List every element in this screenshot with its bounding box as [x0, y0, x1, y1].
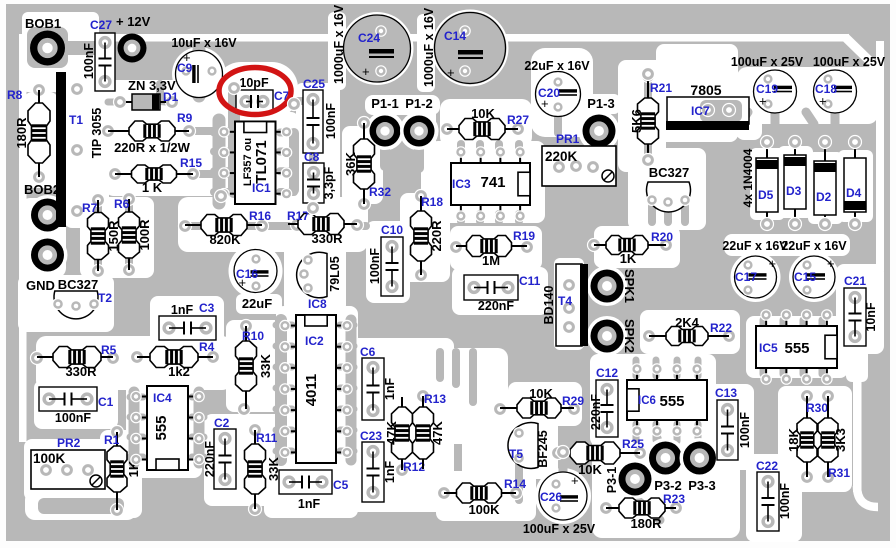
svg-text:R20: R20: [651, 230, 673, 244]
op-amp IC1 LF357/TL071: [219, 122, 292, 205]
svg-text:BD140: BD140: [542, 286, 556, 325]
svg-text:IC4: IC4: [153, 391, 172, 405]
svg-text:C22: C22: [756, 459, 778, 473]
svg-text:100nF: 100nF: [55, 411, 91, 425]
resistor R1 1K: [104, 426, 141, 517]
connector +12V: [116, 14, 151, 63]
svg-text:C18: C18: [815, 82, 837, 96]
wire: [280, 167, 294, 175]
svg-text:R22: R22: [710, 321, 732, 335]
regulator IC7 7805: [666, 82, 749, 130]
connector SPK2: [587, 316, 637, 356]
capacitor C7 10pF: [236, 76, 290, 113]
wire: [695, 424, 702, 440]
svg-text:C8: C8: [304, 150, 320, 164]
wire: [192, 454, 204, 461]
connector P3-3: [680, 438, 720, 493]
svg-text:100nF: 100nF: [368, 248, 382, 284]
svg-text:C27: C27: [90, 18, 112, 32]
capacitor C5 1nF: [279, 470, 349, 511]
timer IC6 555: [627, 364, 707, 436]
wire: [414, 148, 424, 168]
svg-text:P1-2: P1-2: [405, 96, 432, 111]
wire: [340, 385, 354, 392]
wire: [130, 414, 143, 421]
svg-text:R15: R15: [180, 156, 202, 170]
highlight ellipse around C7: [219, 68, 291, 115]
svg-text:C11: C11: [519, 274, 541, 288]
svg-text:100nF: 100nF: [778, 483, 792, 519]
capacitor C17 22uF: [722, 239, 788, 298]
wire: [681, 206, 689, 222]
svg-text:100K: 100K: [468, 502, 500, 517]
wire: [214, 148, 230, 156]
capacitor C9 10uF: [171, 36, 237, 98]
capacitor C15 22uF: [781, 239, 847, 298]
wire: [213, 120, 226, 203]
wire: [214, 129, 230, 137]
svg-text:R10: R10: [242, 329, 264, 343]
wire: [644, 146, 652, 162]
svg-text:1 K: 1 K: [142, 180, 163, 195]
resistor R5 330R: [31, 343, 120, 379]
svg-text:R4: R4: [199, 340, 215, 354]
svg-text:R9: R9: [177, 111, 193, 125]
svg-text:820K: 820K: [209, 232, 241, 247]
wire: [25, 490, 137, 520]
svg-text:IC2: IC2: [305, 334, 324, 348]
diode D4 1N4004: [844, 136, 866, 231]
wire: [469, 352, 477, 402]
wire: [340, 322, 354, 329]
wire: [276, 427, 292, 434]
svg-text:C24: C24: [358, 31, 380, 45]
wire: [193, 170, 232, 178]
svg-text:+: +: [571, 473, 579, 488]
wire: [648, 206, 656, 222]
wire: [125, 258, 133, 271]
svg-text:330R: 330R: [65, 364, 97, 379]
wire: [193, 50, 206, 96]
wire: [340, 448, 354, 455]
svg-text:C13: C13: [715, 386, 737, 400]
svg-text:R17: R17: [287, 209, 309, 223]
svg-text:D2: D2: [816, 190, 832, 204]
wire: [276, 406, 292, 413]
wire: [125, 200, 133, 212]
capacitor C14 1000uF: [422, 7, 506, 87]
svg-text:R8: R8: [7, 88, 23, 102]
wire: [340, 364, 354, 371]
svg-text:C6: C6: [360, 345, 376, 359]
wire: [380, 148, 390, 166]
wire: [495, 144, 503, 152]
wire: [228, 88, 240, 192]
wire: [806, 112, 814, 124]
svg-text:R25: R25: [622, 437, 644, 451]
svg-text:T4: T4: [558, 294, 572, 308]
svg-text:+: +: [447, 65, 455, 80]
svg-text:C26: C26: [540, 490, 562, 504]
svg-text:IC8: IC8: [308, 297, 327, 311]
wire: [780, 364, 787, 374]
svg-text:PR2: PR2: [57, 436, 81, 450]
connector GND: [26, 235, 68, 293]
connector P1-1: [366, 96, 404, 150]
wire: [819, 364, 826, 374]
svg-text:BC327: BC327: [58, 277, 98, 292]
svg-text:BOB2: BOB2: [24, 182, 60, 197]
trimmer PR2 100K: [31, 436, 105, 489]
wire: [346, 320, 357, 460]
transistor T4 BD140: [542, 264, 588, 346]
svg-text:10pF: 10pF: [239, 76, 269, 90]
capacitor C2 220nF: [203, 416, 236, 489]
svg-text:D5: D5: [758, 188, 774, 202]
svg-text:C20: C20: [538, 86, 560, 100]
resistor R15 1 K: [109, 156, 203, 195]
resistor R23 180R: [600, 492, 686, 531]
connector P1-2: [400, 96, 438, 150]
wire: [192, 414, 204, 421]
capacitor C22 100nF: [756, 459, 792, 531]
svg-text:R16: R16: [249, 209, 271, 223]
svg-text:100uF x 25V: 100uF x 25V: [813, 55, 886, 69]
transistor T5 BF245: [508, 423, 550, 469]
wire: [674, 360, 681, 376]
svg-text:BF245: BF245: [536, 430, 550, 468]
wire: [185, 222, 205, 230]
svg-text:R21: R21: [650, 81, 672, 95]
svg-text:+: +: [362, 64, 370, 79]
svg-text:220nF: 220nF: [203, 441, 217, 477]
svg-text:18K: 18K: [786, 427, 801, 451]
wire: [280, 188, 294, 196]
svg-text:P3-3: P3-3: [688, 478, 715, 493]
wire: [695, 360, 702, 376]
resistor R12 47K: [384, 397, 425, 477]
wire: [602, 306, 612, 318]
wire: [276, 448, 292, 455]
regulator IC8 79L05: [297, 252, 342, 311]
svg-text:SPK1: SPK1: [622, 269, 637, 303]
svg-text:IC6: IC6: [638, 395, 656, 407]
svg-text:100nF: 100nF: [738, 412, 752, 448]
wire: [340, 427, 354, 434]
svg-text:IC1: IC1: [252, 181, 271, 195]
capacitor C8 3,3pF: [303, 150, 336, 203]
svg-text:+: +: [769, 256, 777, 271]
svg-text:5K6: 5K6: [629, 109, 644, 133]
label 4x 1N4004: [741, 148, 755, 207]
svg-text:C10: C10: [381, 223, 403, 237]
svg-text:1K: 1K: [620, 251, 637, 266]
wire: [214, 188, 230, 196]
capacitor C1 100nF: [39, 387, 114, 425]
resistor R14 100K: [438, 477, 527, 517]
svg-text:330R: 330R: [311, 231, 343, 246]
svg-text:IC3: IC3: [452, 177, 471, 191]
wire: [67, 41, 98, 55]
svg-text:1nF: 1nF: [383, 378, 397, 401]
resistor R30 18K: [786, 390, 828, 484]
capacitor C12 220nF: [589, 366, 618, 437]
wire: [130, 434, 143, 441]
wire: [38, 498, 124, 514]
resistor R16 820K: [179, 209, 272, 247]
svg-text:1nF: 1nF: [298, 497, 321, 511]
svg-text:220R: 220R: [429, 220, 444, 252]
svg-text:47K: 47K: [430, 420, 445, 444]
svg-text:C12: C12: [596, 366, 618, 380]
svg-text:1nF: 1nF: [171, 303, 194, 317]
capacitor C13 100nF: [715, 386, 752, 460]
svg-text:100uF x 25V: 100uF x 25V: [731, 55, 804, 69]
wire: [275, 320, 287, 460]
svg-text:741: 741: [480, 174, 505, 191]
svg-text:T5: T5: [509, 447, 523, 461]
wire: [452, 352, 460, 384]
svg-text:C1: C1: [98, 395, 114, 409]
svg-text:R14: R14: [504, 477, 526, 491]
diode D5 1N4004: [756, 136, 778, 231]
wire: [515, 144, 523, 152]
svg-text:C3: C3: [199, 301, 215, 315]
resistor R20 1K: [588, 230, 674, 266]
svg-text:R18: R18: [421, 195, 443, 209]
svg-text:C17: C17: [735, 270, 757, 284]
wire: [559, 452, 568, 472]
svg-text:C19: C19: [756, 82, 778, 96]
wire: [94, 200, 102, 212]
wire: [653, 424, 660, 440]
resistor R19 1M: [450, 229, 536, 268]
wire: [289, 133, 299, 190]
svg-text:3K3: 3K3: [833, 428, 848, 452]
svg-text:+ 12V: + 12V: [116, 14, 151, 29]
wire: [656, 433, 660, 443]
svg-text:220nF: 220nF: [589, 394, 603, 430]
svg-text:R12: R12: [403, 460, 425, 474]
capacitor C26 100uF: [523, 472, 596, 536]
svg-text:4011: 4011: [303, 374, 320, 407]
svg-text:P1-1: P1-1: [371, 96, 398, 111]
svg-text:IC5: IC5: [759, 341, 778, 355]
svg-text:4x 1N4004: 4x 1N4004: [741, 148, 755, 207]
diode D3 1N4004: [784, 136, 806, 231]
wire: [633, 360, 640, 376]
svg-text:220R x 1/2W: 220R x 1/2W: [114, 140, 191, 155]
svg-text:TL071: TL071: [253, 140, 270, 183]
capacitor C10 100nF: [368, 223, 403, 296]
svg-text:10K: 10K: [578, 462, 602, 477]
svg-text:100K: 100K: [33, 451, 66, 466]
svg-text:R29: R29: [562, 394, 584, 408]
svg-text:SPK2: SPK2: [622, 319, 637, 353]
svg-text:79L05: 79L05: [328, 256, 342, 291]
svg-text:22uF: 22uF: [242, 296, 272, 311]
wire: [108, 99, 120, 106]
svg-text:R13: R13: [424, 392, 446, 406]
wire: [94, 259, 102, 272]
diode D2 1N4004: [814, 136, 836, 231]
capacitor C25 100nF: [303, 77, 338, 153]
capacitor C16 22uF: [234, 250, 277, 312]
svg-text:C9: C9: [177, 61, 193, 75]
svg-text:10nF: 10nF: [864, 302, 878, 332]
wire: [298, 97, 313, 105]
svg-text:180R: 180R: [14, 117, 29, 149]
wire: [340, 406, 354, 413]
svg-text:+: +: [827, 256, 835, 271]
op-amp IC3 741: [451, 147, 530, 221]
wire: [192, 434, 204, 441]
wire: [276, 364, 292, 371]
wire: [644, 74, 652, 96]
svg-text:2K4: 2K4: [675, 315, 700, 330]
capacitor C11 220nF: [464, 274, 541, 313]
svg-text:R6: R6: [114, 197, 130, 211]
wire: [276, 385, 292, 392]
wire: [653, 360, 660, 376]
svg-text:7805: 7805: [690, 82, 721, 98]
resistor R13 47K: [413, 390, 447, 470]
capacitor C18 100uF: [813, 55, 886, 113]
wire: [192, 394, 204, 401]
svg-text:555: 555: [153, 415, 170, 440]
resistor R11 33K: [245, 424, 282, 516]
resistor R27 10K: [441, 106, 530, 140]
wire: [476, 214, 484, 221]
svg-text:R7: R7: [82, 201, 98, 215]
svg-text:555: 555: [659, 393, 684, 410]
svg-text:BC327: BC327: [649, 165, 689, 180]
capacitor C6 1nF: [360, 345, 397, 420]
svg-text:PR1: PR1: [556, 132, 580, 146]
resistor R25 10K: [552, 437, 647, 477]
svg-text:C5: C5: [333, 478, 349, 492]
resistor R21 5K6: [629, 70, 672, 167]
wire: [780, 320, 787, 330]
svg-text:36K: 36K: [343, 151, 358, 175]
transistor T2 BC327: [53, 277, 113, 319]
resistor R22 2K4: [643, 315, 736, 346]
wire: [189, 127, 232, 135]
capacitor C24 1000uF: [332, 4, 411, 84]
svg-text:33K: 33K: [258, 353, 273, 377]
svg-text:3,3pF: 3,3pF: [322, 166, 336, 199]
wire: [457, 144, 465, 152]
wire: [740, 112, 748, 124]
trimmer PR1 220K: [542, 132, 616, 186]
resistor R29 10K: [494, 386, 585, 418]
diode D1 ZN3.3V: [114, 78, 179, 110]
wire: [194, 392, 205, 463]
svg-text:10uF x 16V: 10uF x 16V: [171, 36, 237, 50]
capacitor C20 22uF: [524, 59, 590, 117]
wire: [800, 320, 807, 330]
connector P3-1: [605, 459, 655, 499]
wire: [160, 84, 172, 102]
svg-text:P1-3: P1-3: [587, 96, 614, 111]
resistor R31 3K3: [818, 390, 850, 484]
svg-text:22uF x 16V: 22uF x 16V: [781, 239, 847, 253]
resistor R32 36K: [343, 117, 391, 211]
svg-text:555: 555: [784, 340, 809, 357]
svg-text:100uF x 25V: 100uF x 25V: [523, 522, 596, 536]
wire: [130, 394, 143, 401]
wire: [664, 208, 672, 222]
svg-text:10K: 10K: [529, 386, 553, 401]
svg-text:100nF: 100nF: [324, 103, 338, 139]
svg-text:C15: C15: [794, 270, 816, 284]
wire: [129, 392, 140, 463]
svg-text:22uF x 16V: 22uF x 16V: [524, 59, 590, 73]
connector SPK1: [587, 266, 637, 306]
svg-text:47K: 47K: [384, 420, 399, 444]
connector BOB1: [25, 16, 68, 68]
wire: [130, 454, 143, 461]
svg-text:C25: C25: [303, 77, 325, 91]
resistor R7 150R: [82, 194, 121, 278]
wire: [674, 424, 681, 440]
connector P3-2: [646, 438, 686, 493]
copper fill inside C24/C14 outlines: [343, 15, 411, 83]
svg-text:BOB1: BOB1: [25, 16, 61, 31]
svg-text:220nF: 220nF: [478, 299, 514, 313]
resistor R18 220R: [411, 190, 445, 282]
svg-text:C14: C14: [444, 29, 466, 43]
capacitor C3 1nF: [159, 301, 216, 340]
svg-text:D3: D3: [786, 184, 802, 198]
resistor R8 180R: [7, 84, 50, 184]
svg-text:R1: R1: [104, 433, 120, 447]
svg-text:C21: C21: [844, 274, 866, 288]
svg-text:10K: 10K: [471, 106, 495, 121]
svg-text:C2: C2: [214, 416, 230, 430]
svg-text:100nF: 100nF: [82, 43, 96, 79]
connector BOB2: [24, 182, 68, 235]
wire: [831, 106, 840, 124]
wire: [771, 106, 780, 124]
svg-text:1000uF x 16V: 1000uF x 16V: [422, 7, 436, 87]
wire: [280, 129, 294, 137]
capacitor C19 100uF: [731, 55, 804, 113]
timer IC4 555: [131, 386, 204, 470]
transistor T3 BC327: [647, 165, 691, 212]
wire: [276, 322, 292, 329]
wire: [674, 433, 681, 441]
wire: [436, 352, 444, 378]
wire: [495, 214, 503, 221]
wire: [635, 498, 660, 520]
svg-text:R11: R11: [256, 431, 278, 445]
resistor R17 330R: [287, 209, 364, 246]
capacitor C27 100nF: [82, 18, 115, 91]
capacitor C23 1nF: [360, 429, 397, 502]
wire: [633, 424, 640, 440]
resistor R9 220R x 1/2W: [102, 111, 196, 155]
svg-text:R27: R27: [507, 113, 529, 127]
junction pads: [215, 68, 655, 459]
wire: [276, 343, 292, 350]
svg-text:GND: GND: [26, 278, 55, 293]
svg-text:D4: D4: [846, 186, 862, 200]
wire: [515, 464, 523, 500]
resistor R6 100R: [114, 193, 152, 277]
svg-text:T1: T1: [69, 113, 83, 127]
wire: [554, 108, 562, 133]
